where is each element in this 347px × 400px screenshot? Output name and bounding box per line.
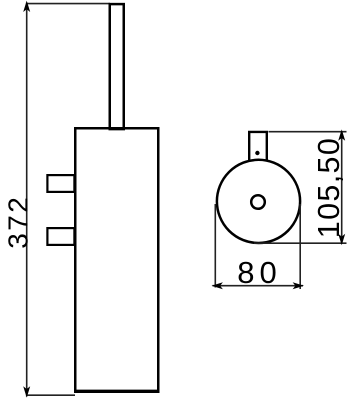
top view: bracket screw dot [255, 151, 259, 155]
side view: holder body bottom edge (thick) [74, 390, 160, 393]
top view: dimension 80 extension line left [214, 204, 216, 288]
side view: dimension 372 extension line bottom [26, 394, 75, 396]
top view: dimension 105,50 arrowhead up [338, 129, 345, 140]
side view: lower wall-mount tab [47, 228, 74, 245]
svg-text:80: 80 [237, 255, 281, 290]
side view: upper wall-mount tab [47, 175, 74, 192]
top view: holder circle [217, 160, 300, 243]
svg-text:105,50: 105,50 [312, 138, 346, 238]
top view: center hole circle [251, 195, 265, 209]
top view: dimension 105,50 extension line bottom [254, 242, 347, 244]
side view: dimension 372 arrowhead up [23, 1, 30, 12]
top view: wall bracket tab [249, 132, 267, 161]
side view: dimension 372 arrowhead down [23, 386, 30, 397]
top view: dimension 80 arrowhead left [212, 282, 223, 289]
side view: brush handle [110, 4, 124, 129]
top view: dimension 105,50 arrowhead down [338, 234, 345, 245]
top view: dimension 80 arrowhead right [293, 282, 304, 289]
top view: dimension line 80 [213, 285, 304, 287]
svg-text:372: 372 [3, 195, 34, 249]
top view: dimension 80 extension line right [299, 204, 301, 289]
side view: dimension line 372 [26, 3, 28, 397]
side view: holder body [75, 128, 158, 392]
top view: dimension 105,50 extension line top [269, 131, 347, 133]
top view: dimension line 105,50 [341, 131, 343, 244]
side view: dimension 372 extension line top [26, 3, 110, 5]
